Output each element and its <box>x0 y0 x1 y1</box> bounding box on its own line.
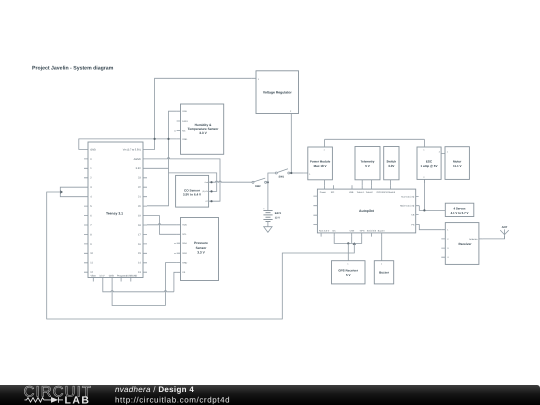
wire Autopilot Main Out to 4 Servos <box>419 206 445 211</box>
module U7 Telemetry <box>355 147 380 186</box>
wire junction down to GPS Receiver <box>347 243 349 260</box>
svg-text:ESC: ESC <box>426 159 433 163</box>
sensor U4 CO Sensor <box>176 175 212 207</box>
microcontroller U1 Teensy 3.1 <box>84 142 147 282</box>
ground GND1 <box>264 222 272 233</box>
node CAN junction arrow <box>60 190 63 194</box>
svg-text:SW1: SW1 <box>279 175 285 178</box>
svg-text:(P)+5V: (P)+5V <box>202 190 208 193</box>
svg-text:Voltage Regulator: Voltage Regulator <box>263 91 292 95</box>
wire VR pin2 riser down <box>290 118 292 174</box>
module U6 Power Module <box>304 139 333 185</box>
svg-text:VDD: VDD <box>182 110 187 113</box>
wire Autopilot I2C CAN GPS cluster <box>334 237 362 244</box>
module U12 Receiver <box>441 223 483 265</box>
svg-text:AGND: AGND <box>134 158 141 161</box>
svg-text:http://circuitlab.com/crdpt4d: http://circuitlab.com/crdpt4d <box>115 395 230 404</box>
svg-text:NC: NC <box>182 129 186 132</box>
svg-text:Power: Power <box>320 191 326 194</box>
svg-text:BAT1: BAT1 <box>275 212 282 215</box>
svg-text:nvadhera / Design 4: nvadhera / Design 4 <box>115 385 194 394</box>
wire Humidity VDD vertical bus <box>147 111 177 206</box>
svg-text:Max 18 V: Max 18 V <box>314 164 327 168</box>
svg-text:3.5V to 6.4 V: 3.5V to 6.4 V <box>183 193 202 197</box>
svg-text:nc: nc <box>174 130 176 132</box>
wire ESC bottom to servo rail <box>423 179 425 210</box>
svg-text:Pressure: Pressure <box>194 241 208 245</box>
wire Pressure VS riser <box>174 272 177 292</box>
svg-text:Aux Out (1-6): Aux Out (1-6) <box>401 196 414 199</box>
svg-text:Switch: Switch <box>386 159 396 163</box>
node GPS junction <box>347 242 349 244</box>
svg-text:GPS Receiver: GPS Receiver <box>338 269 359 273</box>
svg-text:Autopilot: Autopilot <box>359 209 375 213</box>
svg-text:Program&USBGND: Program&USBGND <box>117 274 138 277</box>
svg-text:SW2: SW2 <box>255 185 261 188</box>
node junction VDD bus x GND rail <box>167 138 169 140</box>
module U11 4 Servos <box>445 203 474 216</box>
regulator U3 Voltage Regulator <box>252 71 299 118</box>
module U10 Autopilot <box>313 185 419 236</box>
svg-text:SDA: SDA <box>182 242 187 245</box>
svg-text:5 V: 5 V <box>365 164 370 168</box>
wire Receiver antenna to ANT <box>483 236 505 239</box>
svg-text:Sensor: Sensor <box>196 246 208 250</box>
svg-text:ANT: ANT <box>502 225 508 229</box>
sensor U2 Humidity & Temperature Sensor <box>174 104 224 154</box>
node VR riser x SW1 wire <box>290 172 292 174</box>
antenna ANT1 <box>500 225 509 239</box>
svg-text:Receiver: Receiver <box>459 242 473 246</box>
module U9 ESC <box>417 139 445 183</box>
footer bar CircuitLab <box>0 385 540 405</box>
wire Teensy 3.3V to bus <box>147 167 169 169</box>
module U8 Switch <box>384 147 399 186</box>
svg-text:Vin (3.7 to 5.5V): Vin (3.7 to 5.5V) <box>123 148 141 151</box>
wire battery node up to SW1 <box>268 173 275 182</box>
svg-text:Project Javelin - System diagr: Project Javelin - System diagram <box>32 65 114 71</box>
svg-text:3.3V: 3.3V <box>136 167 141 170</box>
wire SW2 to battery node <box>267 181 268 183</box>
wire Teensy pin18 to Pressure VDD with crossover <box>147 224 177 225</box>
wire Voltage Regulator pin1 to Teensy Vin <box>147 78 252 149</box>
node battery junction <box>267 181 269 183</box>
svg-text:4 Servos: 4 Servos <box>453 207 465 211</box>
svg-text:SDO: SDO <box>182 252 187 255</box>
wire Autopilot Buzzer pin to Buzzer <box>381 237 383 261</box>
wire Teensy pins 3 and 4 CAN loop <box>60 187 84 197</box>
svg-text:Serial 4/5: Serial 4/5 <box>367 230 377 233</box>
svg-text:nc: nc <box>174 243 176 245</box>
node CO pin1 <box>210 181 212 183</box>
svg-text:ADC 6.6 V: ADC 6.6 V <box>319 230 330 233</box>
svg-text:Main Out (1-8): Main Out (1-8) <box>400 205 414 208</box>
svg-text:12 V: 12 V <box>275 216 280 219</box>
svg-text:GND: GND <box>182 138 187 141</box>
switch SW2 <box>252 178 267 188</box>
node ESC riser x servo wire <box>423 209 425 211</box>
svg-text:SPI: SPI <box>331 191 335 194</box>
svg-text:GND: GND <box>90 148 96 151</box>
svg-text:GPS: GPS <box>360 230 365 233</box>
wire Teensy bottom 3.3V run with crossovers <box>103 282 174 292</box>
wire Pressure GND riser <box>166 263 177 306</box>
svg-text:CAN: CAN <box>350 230 355 233</box>
svg-text:Power Module: Power Module <box>310 159 331 163</box>
node CO pin2 <box>210 190 212 192</box>
wire top power rail Power Module to ESC <box>325 138 425 140</box>
svg-text:3.3V: 3.3V <box>388 164 394 168</box>
svg-text:Buzzer: Buzzer <box>379 271 390 275</box>
svg-text:3.3 V: 3.3 V <box>197 251 205 255</box>
svg-text:Telem2: Telem2 <box>366 191 374 194</box>
wire CO route top to CO pin2 <box>169 173 217 192</box>
battery BAT1 <box>263 182 282 221</box>
svg-text:3.3 V: 3.3 V <box>199 131 207 135</box>
svg-text:Telem 1: Telem 1 <box>357 191 365 194</box>
svg-text:Buzzer: Buzzer <box>378 230 385 233</box>
wire Teensy AGND to CO sensor pin3 <box>147 158 220 201</box>
svg-text:4.1 V to 5.7 V: 4.1 V to 5.7 V <box>451 211 469 215</box>
svg-text:CB: CB <box>411 214 415 217</box>
svg-text:Motor: Motor <box>453 159 462 163</box>
wire CO pin1 to switch SW2 with crossovers <box>212 181 253 182</box>
buzzer LS1 Buzzer <box>374 261 393 284</box>
motor M1 Motor <box>445 147 469 180</box>
node CAN run junction arrow <box>353 242 356 245</box>
node junction VR riser x GND rail <box>154 138 156 140</box>
svg-text:11.1 V: 11.1 V <box>453 164 462 168</box>
svg-text:Gnd: Gnd <box>205 181 208 184</box>
svg-text:1 amp @ 5V: 1 amp @ 5V <box>421 164 438 168</box>
svg-text:LAB: LAB <box>65 395 91 405</box>
svg-text:GPIO/ISOO/Switch: GPIO/ISOO/Switch <box>377 191 396 194</box>
svg-text:3.3 V: 3.3 V <box>99 274 105 277</box>
logo CircuitLab <box>24 383 93 405</box>
svg-text:Antenna: Antenna <box>469 238 478 241</box>
svg-text:VDD: VDD <box>182 224 187 227</box>
wire Autopilot PS pin to Receiver pin1 <box>419 224 441 229</box>
svg-text:GND: GND <box>109 274 114 277</box>
svg-text:USB: USB <box>349 191 354 194</box>
node CO pin3 <box>210 200 212 202</box>
wire Teensy bottom GND run <box>112 282 165 306</box>
wire SW1 to Power Module pin1 <box>290 172 304 174</box>
wire long CAN run to Autopilot cluster <box>47 192 355 319</box>
svg-text:5 V: 5 V <box>346 273 351 277</box>
svg-text:GND: GND <box>182 262 187 265</box>
svg-text:nc: nc <box>174 253 176 255</box>
sensor U5 Pressure Sensor <box>174 218 218 281</box>
svg-text:DATA: DATA <box>182 120 188 123</box>
wire Teensy pin19 to Pressure SCL <box>147 216 177 235</box>
svg-text:VBat: VBat <box>91 274 96 277</box>
switch SW1 <box>275 169 290 179</box>
svg-text:Telemetry: Telemetry <box>361 159 375 163</box>
svg-text:I2C: I2C <box>332 230 336 233</box>
wire Teensy GND to Humidity GND rail <box>79 139 177 150</box>
module U13 GPS Receiver <box>332 261 366 284</box>
svg-text:Teensy 3.1: Teensy 3.1 <box>106 211 123 215</box>
